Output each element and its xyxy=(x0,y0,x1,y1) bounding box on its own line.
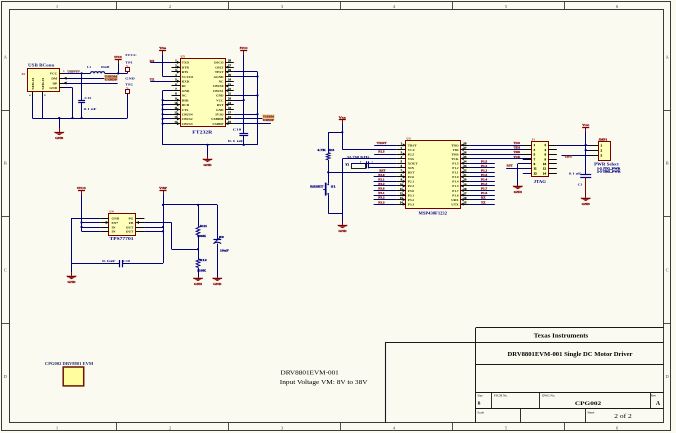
wire J4 shield pins to ground rail xyxy=(33,97,43,119)
svg-text:P1.2: P1.2 xyxy=(452,166,459,170)
svg-text:FSCM No.: FSCM No. xyxy=(494,393,508,397)
svg-text:TPS77701: TPS77701 xyxy=(110,236,134,241)
svg-text:12: 12 xyxy=(543,167,547,171)
svg-text:DRV8801EVM-001: DRV8801EVM-001 xyxy=(281,370,339,377)
svg-text:CPG002 DRV8801 EVM: CPG002 DRV8801 EVM xyxy=(45,361,94,366)
title block size field xyxy=(477,393,483,405)
svg-text:P3.2: P3.2 xyxy=(408,198,415,202)
wire net P1.2 at U3 xyxy=(470,167,495,169)
wire TP2 to ground rail xyxy=(127,93,129,118)
svg-text:U5: U5 xyxy=(181,55,186,59)
svg-text:2-3 TBD_PWR: 2-3 TBD_PWR xyxy=(597,170,622,174)
svg-text:CBUS4: CBUS4 xyxy=(182,112,193,116)
ground rail under U5 xyxy=(163,144,258,146)
wire net P1.5 at U3 xyxy=(470,163,495,165)
svg-text:TMS: TMS xyxy=(451,152,458,156)
svg-text:TX: TX xyxy=(150,79,155,82)
svg-text:196K: 196K xyxy=(197,234,207,238)
svg-text:13: 13 xyxy=(534,171,538,175)
svg-text:VCCIO: VCCIO xyxy=(182,75,194,79)
net label RST at U3 xyxy=(379,169,385,172)
svg-text:0.1 uF: 0.1 uF xyxy=(228,139,244,143)
svg-text:10uF: 10uF xyxy=(220,248,229,252)
net label P3.3 xyxy=(378,201,385,204)
net labels USBDM USBDP at J4 xyxy=(104,75,118,82)
svg-text:P2.2: P2.2 xyxy=(408,184,415,188)
svg-text:J4: J4 xyxy=(21,72,25,76)
svg-text:CPG002: CPG002 xyxy=(575,401,602,407)
svg-text:XOUT: XOUT xyxy=(408,161,419,165)
svg-text:P3.1: P3.1 xyxy=(378,192,385,195)
net label P3.0 xyxy=(378,188,385,191)
svg-text:Size: Size xyxy=(477,393,483,397)
svg-text:Texas Instruments: Texas Instruments xyxy=(534,334,589,340)
svg-text:TDI: TDI xyxy=(514,147,521,150)
ground GND at J1 xyxy=(513,186,523,194)
svg-text:L1: L1 xyxy=(87,65,91,69)
svg-text:USBDP: USBDP xyxy=(263,118,274,122)
svg-text:TDO: TDO xyxy=(451,143,459,147)
svg-text:P1.2: P1.2 xyxy=(481,165,488,168)
svg-text:TP1: TP1 xyxy=(125,60,133,64)
resistor R11 196K xyxy=(196,205,208,249)
svg-text:TEST: TEST xyxy=(215,70,224,74)
power port 3VCC xyxy=(77,186,87,231)
svg-text:NC: NC xyxy=(219,79,224,83)
wire U4 OUT pins to V3P xyxy=(144,228,163,232)
ground GND under U5 xyxy=(202,145,212,167)
svg-text:P3.3: P3.3 xyxy=(378,201,385,204)
wire V3P rail to divider xyxy=(163,204,217,206)
capacitor C9 10uF xyxy=(213,205,228,278)
IC U5 FT232R xyxy=(172,55,234,135)
svg-text:Y1: Y1 xyxy=(345,163,349,167)
svg-text:CBUS2: CBUS2 xyxy=(182,117,193,121)
wire net RX to U5 TXD xyxy=(150,62,171,64)
svg-text:GND: GND xyxy=(216,108,224,112)
svg-text:P1.0: P1.0 xyxy=(481,174,488,177)
svg-text:P3.2: P3.2 xyxy=(378,197,385,200)
title block lines xyxy=(386,328,664,423)
svg-text:3V3O: 3V3O xyxy=(215,112,224,116)
svg-text:TXD: TXD xyxy=(182,61,190,65)
svg-text:XIN: XIN xyxy=(408,166,415,170)
svg-text:RI: RI xyxy=(182,84,186,88)
wire U5 TEST AGND GND to ground xyxy=(234,72,259,145)
wire net P3.1 xyxy=(374,195,397,197)
wire U5 ground bundle xyxy=(162,91,172,145)
connector J1 JTAG xyxy=(523,137,557,184)
net label P1.4 at U3 xyxy=(481,179,488,182)
wire L1 to TP1 and 5VCC xyxy=(105,71,128,75)
net label TX xyxy=(150,79,155,82)
svg-text:11: 11 xyxy=(534,167,537,171)
svg-text:DRV8801EVM-001 Single DC Motor: DRV8801EVM-001 Single DC Motor Driver xyxy=(508,352,633,358)
wire net RX at U3 xyxy=(470,199,495,201)
svg-text:P1.0: P1.0 xyxy=(452,175,459,179)
svg-text:P3.3: P3.3 xyxy=(408,202,415,206)
svg-text:J1: J1 xyxy=(532,137,536,141)
wire U4 GND pin xyxy=(72,218,101,263)
svg-text:TCK: TCK xyxy=(514,156,521,159)
svg-text:Vio: Vio xyxy=(159,46,167,50)
svg-text:Vcc: Vcc xyxy=(582,123,590,127)
svg-text:RST: RST xyxy=(507,165,513,168)
svg-text:Rev: Rev xyxy=(651,393,657,397)
wire net P2.2 xyxy=(374,185,397,187)
svg-text:P1.6: P1.6 xyxy=(452,193,459,197)
svg-text:TCK: TCK xyxy=(451,157,459,161)
wire Vcc to U3 VCC pin xyxy=(341,131,397,149)
svg-text:P1.4: P1.4 xyxy=(481,179,488,182)
svg-text:2 of 2: 2 of 2 xyxy=(614,413,632,420)
wire JMP1 pin2 to Vcc xyxy=(585,149,590,151)
svg-text:P1.3: P1.3 xyxy=(481,183,488,186)
svg-text:GND: GND xyxy=(49,86,57,90)
wire 3VCC to U4 EN and IN pins xyxy=(82,223,101,232)
title block drawing title xyxy=(508,352,633,358)
svg-text:P1.1: P1.1 xyxy=(481,169,488,172)
net label RST at J1 xyxy=(507,165,513,168)
svg-text:TRST: TRST xyxy=(408,143,418,147)
net label P1.6 at U3 xyxy=(481,192,488,195)
svg-text:0.1uF: 0.1uF xyxy=(102,259,115,263)
svg-text:5VCC: 5VCC xyxy=(240,46,249,50)
pushbutton S1 RESET xyxy=(310,172,336,213)
ground GND below R12 xyxy=(193,278,203,286)
svg-text:MSP430F1232: MSP430F1232 xyxy=(419,210,448,215)
svg-text:DM: DM xyxy=(51,77,58,81)
net label P1.3 at U3 xyxy=(481,183,488,186)
wire crystal to U3 XIN xyxy=(369,167,397,169)
svg-text:SHLD: SHLD xyxy=(31,77,35,90)
title block rev field xyxy=(651,393,661,407)
ground GND below C9 xyxy=(212,278,222,286)
svg-text:VCC: VCC xyxy=(216,98,224,102)
net label TCK xyxy=(514,156,521,159)
svg-text:3VCC: 3VCC xyxy=(77,186,87,190)
net label TRST xyxy=(377,142,387,145)
svg-text:P1.5: P1.5 xyxy=(481,160,488,163)
svg-text:Scale: Scale xyxy=(477,410,484,414)
net label P3.2 xyxy=(378,197,385,200)
wire U3 VSS to ground xyxy=(343,159,397,225)
ground GND below U4 xyxy=(66,263,76,284)
svg-text:5VCC: 5VCC xyxy=(114,55,123,59)
svg-text:C1: C1 xyxy=(578,183,583,187)
svg-text:Input Voltage VM: 8V to 38V: Input Voltage VM: 8V to 38V xyxy=(280,379,368,386)
svg-text:P3.1: P3.1 xyxy=(408,193,415,197)
power port Vcc at JMP1 xyxy=(582,123,590,175)
svg-text:FT232R: FT232R xyxy=(192,129,213,134)
wire net P1.3 at U3 xyxy=(470,185,495,187)
svg-text:P1.7: P1.7 xyxy=(481,188,488,191)
svg-text:P1.3: P1.3 xyxy=(452,184,459,188)
wire net P3.3 xyxy=(374,204,397,206)
capacitor C1 0.1uF xyxy=(569,171,591,197)
wire net TX at U3 xyxy=(470,204,495,206)
note text DRV8801EVM-001 xyxy=(280,370,368,386)
svg-text:TDI: TDI xyxy=(453,148,460,152)
svg-text:IN: IN xyxy=(112,230,116,234)
svg-text:URX: URX xyxy=(451,198,459,202)
svg-text:USBDM: USBDM xyxy=(211,117,224,121)
svg-text:GND: GND xyxy=(55,136,64,140)
svg-text:CBUS0: CBUS0 xyxy=(213,84,224,88)
svg-text:C9: C9 xyxy=(219,235,224,239)
svg-text:TDO: TDO xyxy=(514,142,521,145)
wire J4 GND pin to ground rail xyxy=(64,88,73,119)
svg-text:USBDP: USBDP xyxy=(105,78,118,82)
svg-text:V3P: V3P xyxy=(159,186,167,190)
power port Vcc at U3 xyxy=(339,115,347,149)
svg-text:R11: R11 xyxy=(200,224,208,228)
svg-text:AGND: AGND xyxy=(214,75,225,79)
svg-text:P1.5: P1.5 xyxy=(452,161,459,165)
wire net RST reset xyxy=(327,171,397,173)
wire net TMS to JTAG xyxy=(470,154,532,156)
svg-text:32.768 KHz: 32.768 KHz xyxy=(347,155,370,159)
ground GND below S1 xyxy=(337,213,347,233)
svg-text:CBUS1: CBUS1 xyxy=(213,89,224,93)
wire S1 to ground xyxy=(328,213,342,215)
net label TMS xyxy=(514,151,521,154)
svg-text:JTAG: JTAG xyxy=(534,179,546,184)
svg-text:PG: PG xyxy=(129,216,134,220)
power port V3P xyxy=(159,186,167,263)
connector JMP1 PWR Select xyxy=(590,138,622,174)
net label P1.0 at U3 xyxy=(481,174,488,177)
svg-text:5VCC: 5VCC xyxy=(125,53,137,57)
svg-text:0.1 uF: 0.1 uF xyxy=(569,171,581,175)
svg-text:TBT: TBT xyxy=(565,156,573,159)
svg-text:C: C xyxy=(666,268,669,273)
net label P1.5 at U3 xyxy=(481,160,488,163)
svg-text:RST: RST xyxy=(217,103,224,107)
net label RX at U3 xyxy=(481,197,485,200)
net label P3.1 xyxy=(378,192,385,195)
svg-text:USB BConn: USB BConn xyxy=(28,63,55,68)
svg-text:USBV5V: USBV5V xyxy=(67,70,80,74)
svg-text:UTX: UTX xyxy=(451,202,459,206)
IC U4 TPS77701 xyxy=(100,209,144,241)
wire U5 VCC pin to 5VCC xyxy=(234,99,245,101)
resistor R3 4.7K xyxy=(317,132,342,172)
net label RX xyxy=(150,60,155,63)
net label P2.5 xyxy=(378,151,385,154)
svg-text:VCC: VCC xyxy=(50,72,58,76)
svg-text:DWG No.: DWG No. xyxy=(542,393,555,397)
svg-text:USBDP: USBDP xyxy=(212,122,223,126)
ground rail USB section xyxy=(32,117,127,119)
wire U5 USBDM xyxy=(234,118,271,120)
svg-text:0.1 uF: 0.1 uF xyxy=(84,107,97,111)
svg-text:GND: GND xyxy=(125,76,135,80)
svg-text:B: B xyxy=(478,400,481,405)
svg-text:OUT: OUT xyxy=(126,230,134,234)
svg-text:P2.1: P2.1 xyxy=(378,179,385,182)
wire net TRST to U3 TEST xyxy=(374,145,397,147)
title block DWG field xyxy=(542,393,602,407)
board outline CPG002 DRV8801 EVM xyxy=(45,361,94,386)
svg-text:DTR: DTR xyxy=(182,65,190,69)
svg-text:TMS: TMS xyxy=(514,151,521,154)
wire net P1.1 at U3 xyxy=(470,172,495,174)
svg-text:C18: C18 xyxy=(233,128,242,132)
svg-text:SHLD: SHLD xyxy=(41,77,45,90)
wire net P1.6 at U3 xyxy=(470,195,495,197)
crystal Y1 32.768 KHz xyxy=(345,155,373,168)
svg-text:Vcc: Vcc xyxy=(339,115,347,119)
svg-text:14: 14 xyxy=(543,171,547,175)
svg-text:P2.0: P2.0 xyxy=(378,174,385,177)
svg-text:GND: GND xyxy=(194,282,203,286)
svg-text:VSS: VSS xyxy=(408,157,414,161)
power port Vio at U5 xyxy=(159,46,171,76)
net label P1.7 at U3 xyxy=(481,188,488,191)
svg-text:P2.1: P2.1 xyxy=(408,180,415,184)
svg-text:P2.5: P2.5 xyxy=(408,152,415,156)
svg-text:R3: R3 xyxy=(329,148,335,152)
svg-text:RX: RX xyxy=(150,60,155,63)
wire net TX to U5 RXD xyxy=(150,81,171,83)
svg-text:DCD: DCD xyxy=(182,103,190,107)
svg-text:RESET: RESET xyxy=(310,184,324,188)
svg-text:RST: RST xyxy=(379,169,385,172)
capacitor C18 0.1uF xyxy=(228,100,248,145)
wire net P2.1 xyxy=(374,181,397,183)
svg-text:OSCO: OSCO xyxy=(214,61,224,65)
wire U4 FB to divider tap xyxy=(144,223,199,251)
capacitor C10 0.1uF xyxy=(72,259,164,267)
wire net P1.0 at U3 xyxy=(470,176,495,178)
svg-text:S1: S1 xyxy=(331,184,336,188)
svg-text:DSR: DSR xyxy=(182,98,189,102)
svg-text:4.7K: 4.7K xyxy=(317,148,326,152)
wire U5 USBDP xyxy=(234,123,271,125)
svg-text:P3.0: P3.0 xyxy=(408,189,415,193)
svg-text:P1.1: P1.1 xyxy=(452,171,459,175)
svg-text:B: B xyxy=(4,161,7,166)
wire net P2.0 xyxy=(374,176,397,178)
svg-text:C15: C15 xyxy=(84,96,91,100)
svg-text:P2.0: P2.0 xyxy=(408,175,415,179)
svg-text:R12: R12 xyxy=(200,258,208,262)
svg-text:10: 10 xyxy=(543,162,547,166)
wire J1 pin2 to JMP1 pin1 xyxy=(557,144,590,146)
svg-text:P2.5: P2.5 xyxy=(378,151,385,154)
svg-text:P2.2: P2.2 xyxy=(378,183,385,186)
wire net P1.4 at U3 xyxy=(470,181,495,183)
svg-text:P3.0: P3.0 xyxy=(378,188,385,191)
svg-text:FB: FB xyxy=(129,221,134,225)
svg-text:GND: GND xyxy=(213,282,222,286)
svg-text:10mH: 10mH xyxy=(101,65,110,69)
wire net P1.7 at U3 xyxy=(470,190,495,192)
svg-text:GND: GND xyxy=(67,280,76,284)
svg-text:110K: 110K xyxy=(197,268,207,272)
svg-text:B: B xyxy=(666,161,669,166)
svg-text:NC: NC xyxy=(182,94,187,98)
inductor L1 10mH xyxy=(87,65,110,74)
net label TX at U3 xyxy=(481,201,485,204)
svg-text:TRST: TRST xyxy=(377,142,387,145)
net label TDI xyxy=(514,147,521,150)
wire net TDI to JTAG xyxy=(470,149,532,151)
net label P2.0 xyxy=(378,174,385,177)
net label P1.2 at U3 xyxy=(481,165,488,168)
svg-text:RX: RX xyxy=(481,197,485,200)
svg-text:RST: RST xyxy=(408,171,415,175)
svg-text:EN*: EN* xyxy=(112,221,119,225)
title block sheet field xyxy=(587,410,632,420)
test point TP2 xyxy=(125,76,135,93)
svg-text:VCC: VCC xyxy=(408,148,416,152)
title block FSCM field xyxy=(494,393,508,397)
wire crystal to U3 XOUT xyxy=(351,163,397,165)
wire net TCK to JTAG xyxy=(470,158,532,160)
svg-text:GND: GND xyxy=(514,190,523,194)
svg-text:CTS: CTS xyxy=(182,108,189,112)
resistor R12 110K xyxy=(196,249,207,278)
svg-text:GND: GND xyxy=(182,89,190,93)
svg-text:GND: GND xyxy=(338,229,347,233)
wire net TDO to JTAG xyxy=(470,145,532,147)
wire net RST to J1 pin11 xyxy=(506,168,531,170)
capacitor C15 0.1uF xyxy=(78,73,96,118)
svg-text:TP2: TP2 xyxy=(125,83,133,87)
svg-text:P1.4: P1.4 xyxy=(452,180,459,184)
wire net P2.5 xyxy=(374,154,397,156)
net label P2.2 xyxy=(378,183,385,186)
net label P1.1 at U3 xyxy=(481,169,488,172)
wire J1 pin13 xyxy=(523,173,531,175)
net label P2.1 xyxy=(378,179,385,182)
title block scale field xyxy=(477,410,484,414)
wire USBDP xyxy=(64,82,118,85)
svg-text:Sheet: Sheet xyxy=(587,410,594,414)
ground GND below C1 xyxy=(581,198,591,206)
svg-text:GND: GND xyxy=(216,94,224,98)
power port 5VCC at U5 xyxy=(240,46,249,100)
svg-text:U3: U3 xyxy=(406,137,411,141)
wire J1 pin9 to ground xyxy=(518,164,532,186)
svg-text:OSCI: OSCI xyxy=(215,65,224,69)
wire net P3.0 xyxy=(374,190,397,192)
IC U3 MSP430F1232 xyxy=(397,137,470,216)
svg-text:JMP1: JMP1 xyxy=(598,138,607,142)
svg-text:GND: GND xyxy=(582,202,591,206)
net label TBT xyxy=(565,156,573,159)
ground GND at USB xyxy=(54,118,64,140)
net labels USBDM USBDP at U5 xyxy=(262,114,274,122)
svg-text:GND: GND xyxy=(112,216,120,220)
svg-text:C: C xyxy=(4,268,7,273)
svg-text:RTS: RTS xyxy=(182,70,189,74)
wire USBV5V from J4 VCC to L1 xyxy=(64,72,91,74)
test point TP1 xyxy=(125,53,137,72)
svg-text:RXD: RXD xyxy=(182,79,190,83)
connector J4 USB B-Conn xyxy=(21,63,65,97)
wire USBDM xyxy=(64,77,118,80)
svg-text:P1.7: P1.7 xyxy=(452,189,459,193)
svg-text:TX: TX xyxy=(481,201,485,204)
title block company name xyxy=(534,334,589,340)
svg-text:U4: U4 xyxy=(109,209,113,213)
svg-text:CBUS3: CBUS3 xyxy=(182,122,193,126)
wire net P3.2 xyxy=(374,199,397,201)
wire net TBT to JMP1 pin3 xyxy=(562,155,590,157)
